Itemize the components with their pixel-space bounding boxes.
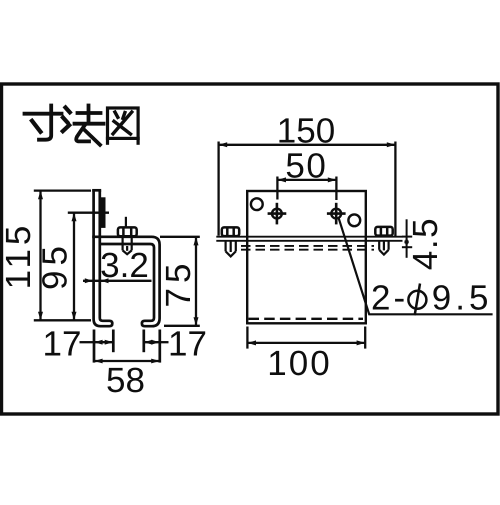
dim 17 right — [144, 340, 169, 345]
crossed hole left — [268, 203, 287, 225]
title 寸法図 — [25, 106, 139, 145]
label 2-phi9.5 text — [371, 279, 492, 318]
svg-text:75: 75 — [159, 259, 198, 308]
dim 17 left — [80, 340, 114, 345]
svg-text:9.5: 9.5 — [432, 279, 493, 318]
rail top flange, right wall, bottom-right flange — [92, 237, 159, 326]
svg-text:95: 95 — [36, 241, 75, 290]
dim 3.2 — [83, 278, 152, 283]
hidden rail flange dashed lines — [241, 246, 374, 250]
clamp bolt stem — [125, 217, 127, 228]
label 2-phi9.5 leader — [339, 219, 493, 315]
dim 75 — [160, 237, 200, 326]
rail left wall and bottom-left flange — [92, 190, 112, 327]
svg-text:17: 17 — [168, 324, 207, 363]
svg-text:58: 58 — [106, 361, 145, 400]
svg-text:100: 100 — [267, 344, 331, 383]
crossed hole right — [327, 203, 346, 225]
rail strip (150 wide bar) — [216, 237, 402, 241]
svg-text:2-: 2- — [371, 279, 408, 318]
dim 150 — [219, 142, 396, 238]
dim 50 — [277, 177, 336, 201]
svg-text:150: 150 — [277, 111, 335, 150]
svg-text:115: 115 — [0, 222, 38, 290]
bolt left (front view) — [222, 227, 239, 256]
svg-text:4.5: 4.5 — [406, 217, 445, 270]
plain hole right — [348, 214, 360, 226]
dim 95 — [68, 213, 109, 321]
dim 58 — [94, 359, 160, 364]
bracket plate front view — [247, 191, 366, 323]
svg-text:17: 17 — [43, 324, 82, 363]
dim 100 — [247, 327, 365, 349]
clamp bolt nut — [118, 227, 137, 236]
bottom dims: extension lines — [94, 330, 160, 363]
svg-text:3.2: 3.2 — [100, 246, 149, 285]
dim 4.5 — [402, 219, 412, 257]
dim 115 — [34, 191, 91, 321]
hidden edge dashed near bottom — [249, 318, 364, 320]
rail back upstand bar — [101, 197, 106, 228]
plain hole left — [251, 198, 263, 210]
bolt right (front view) — [375, 227, 392, 255]
svg-text:50: 50 — [285, 146, 327, 185]
clamp bolt shaft and tip — [123, 237, 132, 254]
